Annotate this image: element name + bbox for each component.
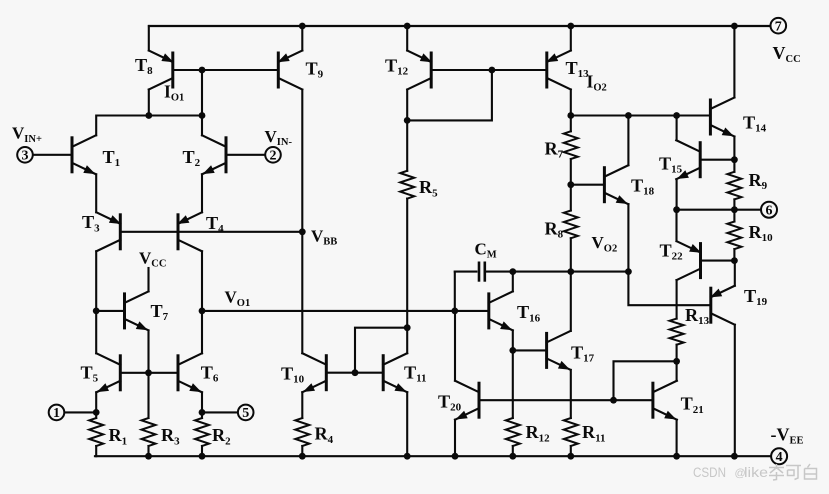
wire T19 base wire [628,272,710,306]
wire R2 to rail [201,446,203,456]
junction T14 emitter node [731,156,738,163]
resistor R2 [195,418,209,446]
transistor T10 [302,353,326,392]
transistor T17 [547,331,571,370]
wire T8-T9 base wire [173,69,278,71]
wire T7 collector VCC stub [147,268,149,291]
wire T7 base to T5 collector line [96,310,124,312]
wire R4 to rail [301,446,303,456]
wire T1 emitter to T3 emitter [95,174,97,212]
wire T11 collector up [406,328,408,354]
junction rail dot T20e [452,453,459,460]
terminal pin 5 (pin5) [238,405,254,422]
wire T13 collector bus [571,114,711,116]
junction pin6 R9 junction [731,206,738,213]
wire R9 bottom lead [733,199,735,209]
wire R11 to rail [570,446,572,456]
wire T4 collector to T6 collector [201,251,203,353]
junction rail dot R2 [199,453,206,460]
wire pin5 lead [202,411,239,413]
junction bus dot R7 [567,112,574,119]
junction T7 base junction [93,308,100,315]
terminal pin 3 (VIN+) [17,147,33,164]
wire T17 collector up [570,272,572,331]
wire CM right lead [485,271,513,273]
wire T15 base wire [700,159,734,161]
transistor T18 [604,165,628,204]
wire T2 emitter to T4 emitter [201,174,203,212]
wire T14 emitter down [733,137,735,160]
wire R7 to T18 base node [570,159,572,185]
wire T6 emitter to R2 [201,392,203,418]
transistor T3 [96,212,121,251]
transistor T14 [710,98,734,137]
transistor T6 [178,353,202,392]
wire T22 emitter up [675,210,677,241]
wire T12 emitter to rail [406,26,408,51]
junction VO2 dot T16 [509,268,516,275]
svg-text:3: 3 [22,149,29,164]
wire R1 to rail [95,446,97,456]
wire T12-T13 base wire [431,69,547,71]
wire T13 emitter to rail [570,26,572,51]
junction T21 base loop junction [610,397,617,404]
svg-text:1: 1 [53,406,60,421]
transistor T8 [149,51,174,90]
junction pin1 tee [93,409,100,416]
transistor T22 [677,241,702,280]
svg-text:like: like [744,465,768,481]
wire T22 base to R10 node [701,260,735,262]
junction rail dot T9 [299,23,306,30]
transistor T2 [202,135,226,174]
junction VO1 CM junction [451,308,458,315]
junction T18 base node [567,181,574,188]
wire T8 collector down [148,90,150,116]
junction T16 emitter node [509,347,516,354]
wire T10 emitter to R4 [301,392,303,418]
wire VBB down to T10 collector [301,232,303,353]
svg-text:5: 5 [242,406,249,421]
junction pin5 tee [199,409,206,416]
junction T7 emitter / T5T6 base junction [145,369,152,376]
junction T8-T9 base tee [199,67,206,74]
junction VO2 dot R8 [567,268,574,275]
wire T1 collector to upper node [96,116,202,136]
svg-text:2: 2 [270,149,277,164]
transistor T16 [489,291,513,330]
wire T14 collector to rail [733,26,735,98]
wire T16 collector up [512,272,514,292]
transistor T9 [278,51,303,90]
transistor T4 [177,212,202,251]
resistor R9 [727,172,741,200]
wire CM left lead [455,271,477,273]
junction rail dot R3 [145,453,152,460]
junction left node T8 collector [145,112,152,119]
resistor R1 [89,418,103,446]
terminal pin 4 (VEE pin4) [771,448,787,465]
wire T16-T17 wire [513,349,547,351]
wire R13 bottom lead [676,345,678,362]
wire T9 emitter to VCC rail [301,26,303,51]
wire VCC top rail [149,25,771,27]
wire pin6 line [677,209,761,211]
transistor T21 [653,381,677,420]
resistor R11 [564,418,578,446]
wire T3-T4 base to VBB [120,231,302,233]
transistor T11 [383,353,407,392]
terminal pin 2 (VIN-) [265,147,281,164]
wire T12 diode loop [407,70,492,120]
wire R9 top lead [733,160,735,172]
junction rail dot R11 [567,453,574,460]
resistor R12 [506,418,520,446]
junction T11 tie junction [404,324,411,331]
wire T21 emitter to rail [676,420,678,457]
wire R12 to rail [512,446,514,456]
wire T8 emitter to VCC rail [148,26,150,51]
wire pin1 lead [64,411,97,413]
junction rail dot T13 [567,23,574,30]
capacitor CM [479,263,485,281]
wire T11 base-collector tie [355,328,407,373]
wire T18 base node to R8 [570,185,572,211]
junction R13 bottom node [673,358,680,365]
wire R10 top lead [733,210,735,222]
wire T5 emitter to R1 [95,392,97,418]
svg-text:7: 7 [775,19,782,34]
wire T18 collector up [627,116,629,166]
junction rail dot R12 [509,453,516,460]
svg-text:CSDN: CSDN [693,465,726,481]
transistor T5 [96,353,120,392]
wire T15 emitter down [676,179,678,210]
wire T20 collector up to VO1 [454,311,456,381]
wire bus to R7 [570,116,572,132]
wire T9 collector to VBB node [301,90,303,232]
wire T16 emitter down [512,330,514,350]
wire R12 from T16 node [512,350,514,418]
wire R8 to VO2 line [570,238,572,271]
wire T20 emitter to rail [454,420,456,457]
junction bus dot T18 [625,112,632,119]
wire VO1 line [202,310,489,312]
transistor T7 [125,291,149,330]
junction rail dot T19c [731,453,738,460]
resistor R13 [670,319,684,345]
watermark CSDN @like李可白 [693,465,768,481]
junction VO1 left junction [199,308,206,315]
wire R10 bottom lead [733,249,735,261]
wire CM corner down to VO1 [454,272,456,311]
transistor T12 [407,51,432,90]
junction left node T2 collector [199,112,206,119]
junction T10-T11 base junction [352,369,359,376]
wire T11 emitter to rail [406,392,408,456]
wire VO2 line [513,271,629,273]
wire -VEE bottom rail [95,455,772,457]
wire T10-T11 base wire [326,372,383,374]
wire T8-T9 base tie down to T2 collector [201,70,203,135]
junction T12 base junction [489,67,496,74]
wire R5 down to T11 tie [406,199,408,328]
wire T19 collector to rail [734,325,736,457]
resistor R4 [295,418,309,446]
wire T18 emitter down [627,204,629,271]
terminal pin 7 (VCC pin7) [771,18,787,35]
transistor T13 [546,51,571,90]
junction VBB node [299,228,306,235]
wire T3 collector to T5 collector [95,251,97,353]
transistor T20 [455,381,479,420]
transistor T1 [72,135,96,174]
resistor R7 [564,131,578,159]
svg-text:4: 4 [776,450,783,465]
svg-text:6: 6 [766,203,773,218]
junction rail dot T21e [673,453,680,460]
wire T21 base-collector loop [614,361,677,400]
terminal pin 6 (pin6) [761,202,777,219]
resistor R5 [400,171,414,199]
junction rail dot T11e [404,453,411,460]
wire T18 base wire [571,184,605,186]
junction bus dot T15 [673,112,680,119]
wire T15 collector up [676,116,678,141]
junction T12 diode loop junction [404,117,411,124]
junction rail dot T12 [404,23,411,30]
wire T13 collector down [570,90,572,116]
wire T2 base to pin2 [226,154,266,156]
junction rail dot R4 [299,453,306,460]
junction R10 bottom node [731,257,738,264]
wire T12 collector down to R5 [406,90,408,171]
junction VO2 dot T18 [625,268,632,275]
resistor R3 [142,418,156,446]
wire R3 to rail [147,446,149,456]
wire T7 emitter down to R3 [147,330,149,418]
wire T5-T6 base wire [120,372,178,374]
wire T20-T21 base wire [479,399,653,401]
junction pin6 left junction [673,206,680,213]
resistor R8 [564,211,578,239]
wire T22 collector to R13 [676,280,678,319]
wire pin3 to T1 base [32,154,72,156]
wire T17 emitter to R11 [570,370,572,418]
terminal pin 1 (pin1) [49,405,65,422]
wire T19 emitter up [734,261,736,286]
transistor T19 [710,286,735,325]
junction rail dot T14 [731,23,738,30]
resistor R10 [727,222,741,250]
wire T21 collector up [676,361,678,380]
transistor T15 [676,140,700,179]
